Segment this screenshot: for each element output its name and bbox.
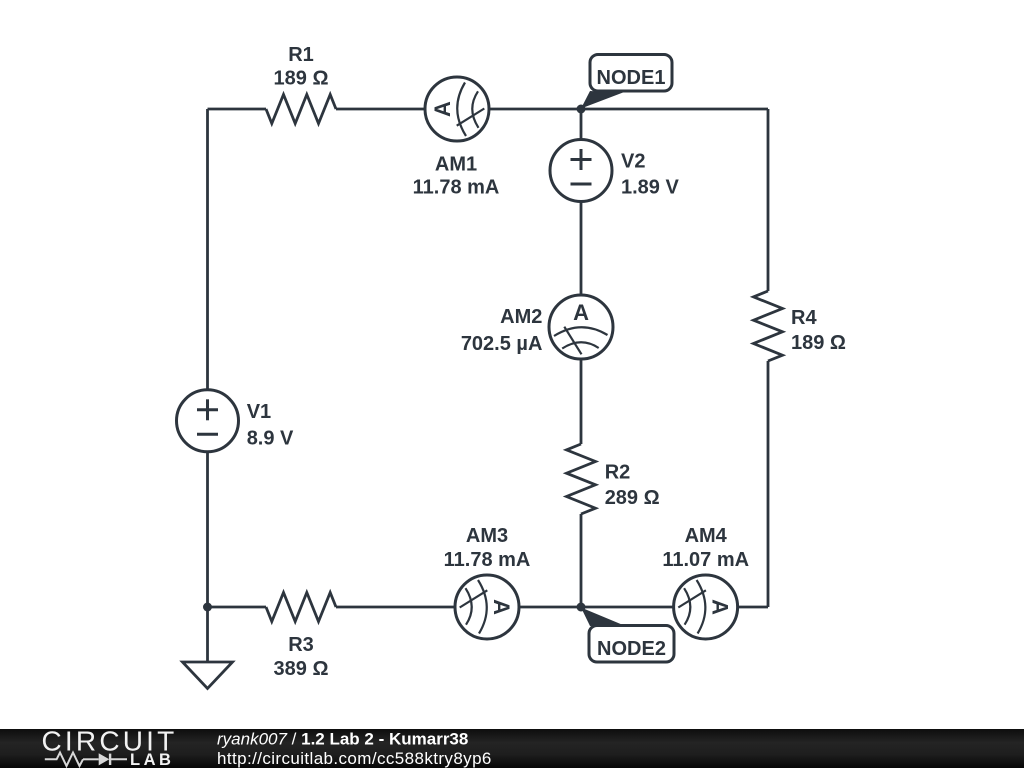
svg-text:289 Ω: 289 Ω bbox=[605, 487, 660, 509]
svg-text:389 Ω: 389 Ω bbox=[274, 658, 329, 680]
voltage source V2 bbox=[550, 140, 612, 202]
node NODE2 flag pointer bbox=[581, 608, 623, 627]
ammeter AM1 bbox=[425, 77, 489, 141]
CircuitLab logo resistor-diode squiggle bbox=[45, 753, 127, 767]
svg-text:11.78 mA: 11.78 mA bbox=[444, 549, 531, 571]
footer bar bbox=[0, 729, 1024, 768]
wire middle: NODE1 down to V2 bbox=[580, 109, 583, 140]
node junction dot NODE1 bbox=[577, 105, 586, 114]
ammeter AM3 bbox=[455, 575, 519, 639]
node NODE2 flag box bbox=[589, 626, 674, 663]
svg-text:11.78 mA: 11.78 mA bbox=[413, 177, 500, 199]
wire bottom: junction to R3 bbox=[208, 606, 267, 609]
wire right: top corner down to R4 bbox=[767, 109, 770, 291]
wire right: R4 down to bottom-right corner bbox=[767, 361, 770, 607]
junction dot at V1/R3/ground bbox=[203, 603, 212, 612]
svg-text:AM3: AM3 bbox=[466, 525, 508, 547]
node NODE1 flag pointer bbox=[581, 91, 623, 109]
node NODE1 flag box bbox=[590, 55, 672, 92]
resistor R2 bbox=[567, 444, 596, 514]
wire ground stub bbox=[206, 607, 209, 662]
svg-text:AM2: AM2 bbox=[500, 306, 542, 328]
logo diode bar bbox=[109, 754, 111, 765]
ammeter AM4 bbox=[674, 575, 738, 639]
resistor R4 bbox=[754, 291, 783, 361]
wire top: AM1 to top-right corner bbox=[489, 108, 768, 111]
wire top: R1 to AM1 bbox=[336, 108, 425, 111]
resistor R1 bbox=[266, 95, 336, 124]
svg-text:1.89 V: 1.89 V bbox=[621, 177, 679, 199]
node junction dot NODE2 bbox=[577, 603, 586, 612]
wire left: top corner down to V1 bbox=[206, 109, 209, 390]
svg-text:R4: R4 bbox=[791, 307, 817, 329]
voltage source V1 bbox=[177, 390, 239, 452]
svg-text:8.9 V: 8.9 V bbox=[247, 428, 294, 450]
wire left: V1 to bottom junction bbox=[206, 452, 209, 607]
svg-text:R2: R2 bbox=[605, 461, 631, 483]
svg-text:LAB: LAB bbox=[130, 751, 174, 768]
svg-text:189 Ω: 189 Ω bbox=[791, 332, 846, 354]
wire middle: AM2 to R2 bbox=[580, 359, 583, 444]
wire bottom: NODE2 junction to AM4 bbox=[581, 606, 674, 609]
svg-text:NODE1: NODE1 bbox=[597, 67, 666, 89]
svg-text:11.07 mA: 11.07 mA bbox=[662, 549, 749, 571]
svg-text:V1: V1 bbox=[247, 401, 271, 423]
svg-text:NODE2: NODE2 bbox=[597, 638, 666, 660]
wire top: left corner to R1 bbox=[208, 108, 267, 111]
wire middle: R2 down to NODE2 bbox=[580, 514, 583, 607]
svg-text:AM1: AM1 bbox=[435, 153, 477, 175]
svg-text:702.5 µA: 702.5 µA bbox=[461, 333, 543, 355]
wire bottom: AM3 to NODE2 junction bbox=[519, 606, 581, 609]
svg-text:189 Ω: 189 Ω bbox=[274, 68, 329, 90]
ground symbol bbox=[183, 662, 233, 689]
wire middle: V2 to AM2 bbox=[580, 201, 583, 295]
wire bottom: R3 to AM3 bbox=[336, 606, 455, 609]
svg-text:V2: V2 bbox=[621, 151, 645, 173]
wire bottom: AM4 to bottom-right corner bbox=[738, 606, 768, 609]
ammeter AM2 bbox=[549, 295, 613, 359]
svg-text:R3: R3 bbox=[288, 634, 314, 656]
svg-text:ryank007 / 1.2 Lab 2 - Kumarr3: ryank007 / 1.2 Lab 2 - Kumarr38 bbox=[217, 729, 468, 748]
logo diode triangle bbox=[99, 753, 110, 765]
svg-text:http://circuitlab.com/cc588ktr: http://circuitlab.com/cc588ktry8yp6 bbox=[217, 749, 492, 768]
svg-text:AM4: AM4 bbox=[685, 525, 728, 547]
svg-text:R1: R1 bbox=[288, 44, 314, 66]
resistor R3 bbox=[266, 593, 336, 622]
